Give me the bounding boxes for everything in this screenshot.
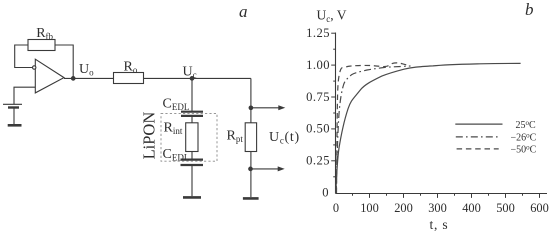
svg-text:t, s: t, s xyxy=(430,217,449,232)
svg-text:500: 500 xyxy=(496,201,515,215)
curve -26C dash-dot xyxy=(336,66,410,193)
wire Uc down xyxy=(191,78,193,111)
svg-text:Rfb: Rfb xyxy=(36,26,53,42)
wire Rpt to ground xyxy=(250,152,252,198)
op-amp U1 xyxy=(35,59,64,93)
svg-text:0: 0 xyxy=(333,201,339,215)
svg-text:−26oC: −26oC xyxy=(511,132,537,144)
svg-text:100: 100 xyxy=(360,201,379,215)
svg-text:1.25: 1.25 xyxy=(306,26,330,40)
wire cap to Rint xyxy=(191,116,193,123)
resistor Rint xyxy=(186,123,198,152)
ground xyxy=(243,197,259,200)
legend line -50C xyxy=(457,148,499,150)
resistor Ro xyxy=(114,73,144,84)
dashed box LiPON model xyxy=(161,114,217,162)
y-axis xyxy=(335,33,337,194)
svg-text:0.75: 0.75 xyxy=(306,90,330,104)
svg-text:Rint: Rint xyxy=(164,121,183,137)
svg-text:1.00: 1.00 xyxy=(306,58,330,72)
wire right branch down xyxy=(250,78,252,122)
legend line 25C xyxy=(455,123,502,125)
resistor Rpt xyxy=(245,123,256,152)
svg-text:Uc: Uc xyxy=(183,65,197,81)
wire op-amp lower input xyxy=(14,87,35,104)
curve -50C dashed xyxy=(337,63,409,193)
wire op-amp output xyxy=(64,77,114,79)
svg-text:Rpt: Rpt xyxy=(227,129,244,145)
svg-text:Uc(t): Uc(t) xyxy=(269,130,300,146)
svg-text:0: 0 xyxy=(322,186,329,200)
arrow output bottom xyxy=(251,166,285,171)
svg-text:600: 600 xyxy=(530,201,549,215)
svg-text:400: 400 xyxy=(462,201,481,215)
capacitor C_EDL bottom xyxy=(181,160,204,165)
svg-text:Ro: Ro xyxy=(124,59,138,75)
node Uc xyxy=(190,77,194,81)
svg-text:Uo: Uo xyxy=(79,62,94,78)
wire feedback right xyxy=(55,45,73,78)
wire battery to ground xyxy=(13,108,15,125)
legend xyxy=(455,119,536,156)
ground xyxy=(183,196,201,199)
svg-text:300: 300 xyxy=(428,201,447,215)
wire Ro to right corner xyxy=(144,77,251,79)
ground xyxy=(8,124,22,127)
svg-text:a: a xyxy=(239,2,248,21)
inverting input marker xyxy=(33,66,36,69)
svg-text:0.50: 0.50 xyxy=(306,122,330,136)
svg-text:25oC: 25oC xyxy=(516,119,537,131)
wire cap to ground xyxy=(191,165,193,196)
wire feedback left xyxy=(15,45,33,68)
x ticks xyxy=(353,194,540,198)
x-axis xyxy=(336,193,548,195)
junction xyxy=(71,77,75,81)
wire Rint to cap xyxy=(191,152,193,160)
svg-text:200: 200 xyxy=(394,201,413,215)
chart axes xyxy=(331,33,547,198)
curve 25C solid xyxy=(336,63,521,193)
capacitor C_EDL top xyxy=(181,112,203,116)
junction xyxy=(249,106,253,110)
svg-text:−50oC: −50oC xyxy=(511,144,537,156)
y ticks xyxy=(331,33,335,177)
resistor Rfb xyxy=(28,40,55,51)
svg-text:CEDL: CEDL xyxy=(163,97,190,113)
svg-text:LiPON: LiPON xyxy=(140,112,159,160)
svg-text:b: b xyxy=(525,0,534,19)
x axis tick labels xyxy=(333,201,549,215)
arrow output top xyxy=(251,105,285,110)
battery B1 xyxy=(3,104,22,107)
junction xyxy=(249,167,253,171)
y axis tick labels xyxy=(306,26,330,200)
svg-text:Uc, V: Uc, V xyxy=(317,8,347,25)
svg-text:0.25: 0.25 xyxy=(306,154,330,168)
legend line -26C xyxy=(456,136,499,138)
